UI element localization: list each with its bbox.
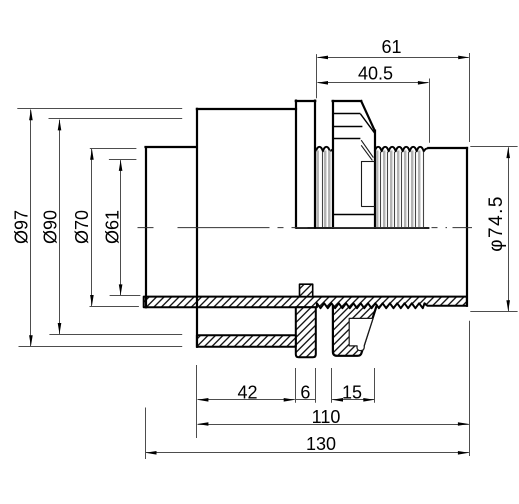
nut left edge: [332, 101, 334, 228]
dim Ø70 dimension line: [91, 149, 93, 306]
dim Ø97 bottom arrow: [29, 335, 33, 346]
socket top outline (Ø70 cylinder): [146, 146, 197, 148]
body left face edge: [196, 109, 198, 347]
dim 110 dimension line: [198, 424, 469, 426]
dim Ø70 top arrow: [90, 149, 94, 160]
dim φ74.5 top arrow: [506, 147, 510, 158]
dim Ø90 bottom arrow: [58, 323, 62, 334]
svg-text:15: 15: [342, 382, 362, 402]
dim Ø61 bottom arrow: [119, 284, 123, 295]
dim Ø90 top arrow: [58, 119, 62, 130]
nut hook inner window (white gap with lip): [349, 318, 373, 350]
pipe right end face edge: [466, 148, 468, 306]
dim 42/6 shared extension line: [295, 368, 297, 403]
svg-text:Ø97: Ø97: [12, 210, 32, 244]
dim 61 right extension line: [469, 53, 471, 142]
flange sealing lip (hatched tab above wall): [300, 284, 313, 296]
dim 110/130 right extension line: [469, 321, 471, 456]
svg-text:Ø61: Ø61: [103, 210, 123, 244]
dim 130 dimension line: [146, 452, 469, 454]
dim Ø97 dimension line: [30, 110, 32, 347]
nut lower chamfer edge 2: [361, 145, 372, 160]
flange right edge: [314, 101, 316, 228]
thread flank lines between flange and nut: [318, 151, 330, 228]
dim 15 dimension line: [332, 399, 374, 401]
dim 6 right extension line: [315, 368, 317, 403]
thread crests right of nut: [375, 147, 429, 152]
dim 40.5 right extension line: [429, 79, 431, 143]
body top outline (Ø97 cylinder): [197, 108, 296, 110]
dim φ74.5 bottom extension line: [470, 311, 517, 313]
dim 15 right extension line: [374, 368, 376, 403]
dim φ74.5 bottom arrow: [506, 300, 510, 311]
nut bottom face line: [333, 214, 375, 216]
flange left edge: [295, 101, 297, 228]
socket left face edge: [145, 147, 147, 307]
nut collar top line: [361, 161, 375, 163]
nut top chamfer inner edge: [360, 114, 374, 133]
dim 40.5 dimension line: [318, 82, 429, 84]
dim Ø70 bottom extension line: [90, 306, 139, 308]
nut right edge: [374, 131, 376, 228]
thread crests between flange and nut: [316, 147, 333, 152]
view boundary line at axis (flange to thread end): [296, 227, 430, 229]
dim Ø97 top arrow: [29, 109, 33, 120]
dim 61 right arrow: [458, 56, 469, 60]
dim Ø70 top extension line: [90, 148, 137, 150]
body shell bottom wall (hatched strip): [197, 335, 296, 347]
flange top edge: [296, 100, 315, 102]
dim 42/110 left extension line: [196, 365, 198, 438]
dim Ø61 dimension line: [120, 160, 122, 295]
svg-text:Ø90: Ø90: [41, 210, 61, 244]
dim 61 left arrow: [317, 56, 328, 60]
dim 15 left extension line: [331, 368, 333, 403]
nut collar inner line: [361, 206, 375, 208]
nut hex facet line: [333, 138, 361, 140]
centerline (axis): [138, 227, 448, 229]
svg-text:110: 110: [312, 407, 341, 427]
dim Ø97 bottom extension line: [19, 346, 183, 348]
dim Ø90 bottom extension line: [49, 334, 182, 336]
sectioned pipe wall (lower half, hatched, threaded outer edge): [144, 297, 467, 309]
flange cross-section column: [296, 307, 316, 357]
dim 130 left arrow: [146, 451, 157, 455]
nut lower chamfer edge 1: [361, 140, 373, 157]
dim 130 left extension line: [145, 408, 147, 460]
dim 6 dimension line: [295, 399, 315, 401]
dim φ74.5 dimension line: [508, 147, 510, 311]
nut hex corner vertical: [361, 161, 363, 207]
nut top chamfer outer edge: [361, 101, 375, 131]
dim Ø70 bottom arrow: [90, 295, 94, 306]
centerline end segment crossing pipe end: [453, 227, 473, 229]
dim 15 left arrow: [332, 398, 343, 402]
svg-text:6: 6: [300, 382, 310, 402]
dim Ø61 top arrow: [119, 160, 123, 171]
nut top face line: [333, 113, 361, 115]
dim Ø61 bottom extension line: [110, 295, 141, 297]
dim 61 left extension line: [316, 54, 318, 98]
dim Ø90 top extension line: [49, 118, 183, 120]
pipe plain end top outline: [428, 147, 467, 149]
dim 110 right arrow: [458, 422, 469, 426]
dim Ø90 dimension line: [59, 120, 61, 334]
dim 42 dimension line: [198, 399, 295, 401]
dim 110 left arrow: [197, 422, 208, 426]
nut top edge: [333, 100, 362, 102]
dim φ74.5 top extension line: [470, 146, 517, 148]
svg-text:Ø70: Ø70: [72, 210, 92, 244]
dim 42 right arrow: [284, 398, 295, 402]
dim 42 left arrow: [197, 398, 208, 402]
dim Ø97 top extension line: [17, 108, 182, 110]
nut chamfer face line: [333, 126, 363, 128]
dim Ø61 top extension line: [109, 159, 136, 161]
dim 15 right arrow: [363, 398, 374, 402]
svg-text:40.5: 40.5: [358, 64, 393, 84]
dim 40.5 right arrow: [418, 81, 429, 85]
svg-text:42: 42: [237, 382, 257, 402]
svg-text:φ74.5: φ74.5: [486, 195, 507, 252]
svg-text:130: 130: [306, 434, 336, 454]
nut cross-section hook outline: [333, 305, 377, 356]
dim 61 dimension line: [318, 57, 469, 59]
nut cross-section hook fill (lower half, behind threads): [333, 303, 378, 356]
thread flank lines right of nut: [377, 151, 423, 228]
dim 130 right arrow: [458, 451, 469, 455]
svg-text:61: 61: [381, 37, 401, 57]
dim 40.5 left arrow: [317, 81, 328, 85]
